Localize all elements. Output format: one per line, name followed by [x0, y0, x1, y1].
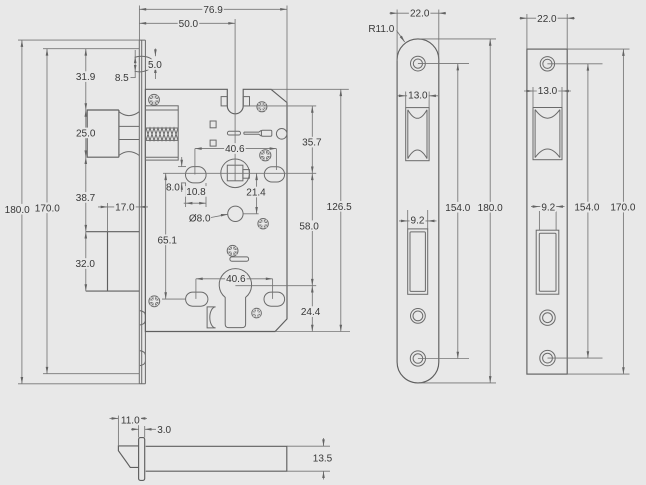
svg-text:3.0: 3.0: [157, 425, 171, 436]
dim 25.0 text: [75, 128, 97, 139]
follower hub circle: [221, 159, 250, 188]
dim 170.0 v3 line: [622, 49, 624, 374]
C-shaped bracket: [207, 307, 216, 328]
svg-text:126.5: 126.5: [327, 202, 352, 213]
svg-text:13.0: 13.0: [408, 90, 428, 101]
svg-text:180.0: 180.0: [5, 205, 30, 216]
dim 22.0 v2 line: [390, 12, 447, 14]
svg-text:Ø8.0: Ø8.0: [189, 214, 211, 225]
latch bolt neck curves and stem: [119, 112, 139, 156]
svg-text:40.6: 40.6: [225, 144, 245, 155]
svg-text:154.0: 154.0: [574, 203, 599, 214]
dim 180.0 v2 text: [477, 202, 504, 213]
boss circle on case right edge: [276, 129, 287, 140]
8mm hole: [228, 206, 243, 221]
svg-text:40.6: 40.6: [226, 274, 246, 285]
notch left square lug: [221, 97, 227, 106]
dim 126.5 line: [340, 89, 342, 331]
screw bottom-left: [149, 296, 160, 307]
dim 11.0 text: [120, 415, 142, 426]
svg-text:17.0: 17.0: [115, 203, 135, 214]
dim 8.0 text: [165, 182, 181, 193]
dim 170.0 text: [34, 203, 61, 214]
dim 5.0 stubs: [154, 49, 156, 57]
leader R11.0: [397, 31, 405, 43]
ext v3 top right: [567, 48, 629, 50]
bottom screw hole inner view2: [413, 354, 423, 364]
notch-bottom reference line: [243, 105, 316, 107]
svg-text:170.0: 170.0: [35, 203, 60, 214]
ext v2 bottom right: [420, 382, 496, 384]
deadbolt cutout view2: [408, 229, 428, 294]
spring bottom line: [145, 139, 178, 141]
cylinder centerline to right: [235, 285, 316, 287]
svg-text:65.1: 65.1: [157, 235, 177, 246]
dim 40.6 bottom text: [225, 273, 247, 284]
svg-text:38.7: 38.7: [76, 193, 96, 204]
ext plate bottom: [18, 383, 139, 385]
dim 8.0 stubs: [181, 157, 183, 167]
svg-text:58.0: 58.0: [299, 221, 319, 232]
ext oval top tick: [178, 166, 186, 168]
svg-text:5.0: 5.0: [148, 60, 162, 71]
top screw hole outer v3: [540, 57, 554, 71]
ext line y=373.7: [43, 373, 139, 375]
ext v2 top right: [420, 38, 496, 40]
dim 50.0 line: [139, 22, 235, 24]
latch tail top line: [145, 109, 178, 111]
latch spring housing: [145, 106, 178, 160]
svg-text:8.0: 8.0: [166, 183, 180, 194]
dim 9.2 v2 line: [399, 220, 437, 222]
dim 8.5 line: [134, 50, 136, 78]
euro profile cylinder hole: [219, 269, 251, 328]
ext oval bottom tick: [178, 182, 186, 184]
dim 13.5 stubs: [323, 438, 325, 446]
bottom screw hole inner v3: [543, 353, 553, 363]
latch cutout view2: [406, 108, 429, 161]
svg-text:22.0: 22.0: [537, 14, 557, 25]
svg-text:11.0: 11.0: [121, 416, 140, 427]
ext 13.0 v2: [405, 92, 407, 108]
ext line y=48.7: [43, 48, 139, 50]
dim 154.0 v2 line: [457, 64, 459, 359]
bottom screw hole outer v3: [540, 350, 555, 365]
follower side tab: [243, 170, 250, 179]
dim 154.0 v3 text: [573, 202, 600, 213]
dim 65.1 text: [156, 235, 178, 246]
ext case rear up: [286, 6, 288, 103]
ext 10.8 right: [205, 183, 207, 207]
dim column 35.7/58.0/24.4: [311, 106, 313, 332]
pin rod with taper: [244, 130, 262, 136]
plain hole inner view2: [413, 311, 423, 321]
leader top screw v3: [547, 63, 602, 65]
dim 40.6 top text: [224, 143, 246, 154]
svg-text:170.0: 170.0: [610, 203, 635, 214]
ext 65.1 bottom: [162, 298, 186, 300]
dim 3.0 text: [157, 424, 173, 435]
leader bottom screw v3: [548, 357, 603, 359]
faceplate top clip tab: [135, 56, 153, 72]
bottom right oval hole: [264, 292, 285, 306]
svg-text:9.2: 9.2: [541, 202, 555, 213]
svg-text:50.0: 50.0: [179, 19, 199, 30]
svg-text:13.0: 13.0: [538, 86, 558, 97]
dim 10.8 line: [184, 202, 206, 204]
top screw hole outer: [411, 56, 426, 71]
dim column 31.9/25.0/38.7/32.0: [85, 49, 87, 291]
slot bar above cylinder: [230, 257, 249, 261]
ext latch face up: [117, 416, 119, 447]
dim 180.0 line: [21, 40, 23, 384]
ext 13.0 v3: [532, 87, 534, 108]
dim 13.0 v3 line: [524, 90, 571, 92]
deadbolt (thrown) with extension edges: [86, 232, 140, 291]
svg-text:R11.0: R11.0: [368, 24, 394, 35]
dim 58.0 text: [298, 220, 320, 231]
ext plan top edge: [287, 445, 330, 447]
plain hole outer view2: [411, 309, 426, 324]
tick at 8mm hole center: [244, 213, 259, 215]
dim 180.0 text: [4, 204, 31, 215]
hub horizontal centerline: [163, 172, 316, 174]
screw top-right: [257, 102, 267, 112]
svg-text:31.9: 31.9: [76, 72, 96, 83]
small square post upper: [210, 121, 216, 128]
latch tail bottom line: [145, 156, 178, 158]
deadbolt cutout view3: [536, 230, 559, 294]
svg-text:8.5: 8.5: [115, 73, 129, 84]
leader dia8.0: [211, 214, 228, 217]
ext plate top: [18, 39, 139, 41]
dim 21.4 text: [245, 187, 267, 198]
plain hole inner v3: [543, 313, 553, 323]
dim 35.7 text: [301, 137, 323, 148]
dim 8.5 text: [114, 72, 130, 83]
dim 9.2 v2 text: [410, 215, 426, 226]
ext plate front up: [138, 418, 140, 437]
leader top screw v2: [418, 63, 469, 65]
latch bolt head: [87, 110, 119, 157]
svg-text:9.2: 9.2: [411, 216, 425, 227]
screw lower-right: [258, 219, 268, 229]
dim 32.0 text: [75, 258, 97, 269]
case top edge extension: [271, 88, 349, 90]
top screw hole inner: [413, 59, 422, 68]
dim 10.8 text: [185, 186, 207, 197]
ext 9.2 v2: [407, 210, 409, 229]
dim 154.0 v3 line: [587, 64, 589, 358]
dim 170.0 v3 text: [609, 202, 636, 213]
dim dia8.0 text: [189, 213, 211, 224]
dim 65.1 line: [165, 173, 167, 299]
bottom screw hole outer view2: [410, 351, 425, 366]
dim 17.0 text: [114, 202, 136, 213]
dim 13.0 v3 text: [537, 85, 559, 96]
notch right square lug: [243, 97, 249, 106]
right spring follower slot: [264, 167, 284, 182]
dim 40.6 top line: [195, 148, 277, 150]
ext v3 right up: [566, 14, 568, 49]
svg-text:154.0: 154.0: [445, 203, 470, 214]
faceplate outline square: [527, 49, 567, 374]
svg-text:10.8: 10.8: [186, 187, 206, 198]
case plan rectangle: [146, 446, 287, 471]
svg-text:32.0: 32.0: [75, 259, 95, 270]
top screw hole inner v3: [543, 59, 552, 68]
ext v3 left up: [526, 14, 528, 49]
dim 50.0 text: [178, 18, 200, 29]
dim 5.0 text: [147, 59, 163, 70]
ext deadbolt face up: [107, 203, 109, 232]
screw right of cylinder: [252, 308, 262, 318]
ext plan bottom edge: [287, 470, 330, 472]
ext v3 bottom right: [567, 373, 629, 375]
svg-text:21.4: 21.4: [246, 188, 266, 199]
dim 17.0 line: [98, 206, 148, 208]
screw above cylinder: [227, 245, 238, 256]
svg-text:76.9: 76.9: [203, 5, 223, 16]
dim 13.0 v2 text: [407, 90, 429, 101]
latch bolt plan with bevel: [118, 446, 138, 468]
dim 9.2 v3 text: [540, 201, 556, 212]
faceplate edge view (strip): [139, 40, 145, 384]
dim 3.0 stubs: [131, 428, 139, 430]
svg-text:35.7: 35.7: [302, 138, 322, 149]
dim 76.9 text: [202, 4, 224, 15]
ext plate rear up: [144, 426, 146, 437]
dim 154.0 v2 text: [444, 202, 471, 213]
follower square spindle hole: [227, 165, 243, 181]
ext 10.8 left: [185, 183, 187, 207]
dim 126.5 text: [326, 201, 353, 212]
faceplate plan strip: [139, 438, 145, 481]
dim 13.0 v2 line: [397, 95, 439, 97]
dim 22.0 v3 text: [536, 13, 558, 24]
svg-text:24.4: 24.4: [301, 307, 321, 318]
dim 24.4 text: [300, 306, 322, 317]
ext v2 left up: [396, 10, 398, 62]
vertical centerline through hub: [234, 19, 236, 181]
bottom left oval hole: [186, 292, 208, 306]
left spring follower slot: [186, 167, 207, 183]
ext faceplate front up: [138, 6, 140, 41]
case bottom edge extension: [275, 331, 350, 333]
dim 22.0 v2 text: [409, 8, 431, 19]
dim 9.2 v3 line: [531, 206, 565, 208]
dim 13.5 text: [312, 453, 334, 464]
svg-text:22.0: 22.0: [410, 9, 430, 20]
dim 21.4 line: [256, 173, 258, 214]
leader bottom screw v2: [418, 358, 469, 360]
plain hole outer v3: [540, 310, 555, 325]
spring top line: [145, 127, 178, 129]
hole projections on faceplate strip: [140, 311, 145, 366]
faceplate outline rounded R11: [397, 39, 439, 383]
ext 9.2 v3: [538, 211, 540, 230]
screw mid-right: [260, 150, 271, 161]
dim 180.0 v2 line: [489, 39, 491, 383]
dim 40.6 bottom line: [196, 278, 273, 280]
svg-text:13.5: 13.5: [313, 454, 333, 465]
svg-text:25.0: 25.0: [76, 129, 96, 140]
small square post lower: [210, 140, 216, 146]
ext v2 right up: [438, 10, 440, 62]
svg-text:180.0: 180.0: [478, 203, 503, 214]
dim 170.0 line: [46, 49, 48, 374]
pin capsule: [227, 131, 240, 135]
dim 76.9 line: [139, 8, 287, 10]
screw top-left: [149, 94, 160, 105]
dim R11.0 text: [367, 23, 395, 34]
dim 38.7 text: [75, 192, 97, 203]
dim 11.0 stubs: [110, 417, 119, 419]
dim 31.9 text: [75, 71, 97, 82]
latch cutout view3: [533, 108, 562, 160]
spring zigzag coil: [146, 128, 178, 140]
dim 22.0 v3 line: [520, 17, 576, 19]
pin head: [261, 130, 271, 136]
lock case outline with top notch and chamfers: [145, 89, 287, 331]
